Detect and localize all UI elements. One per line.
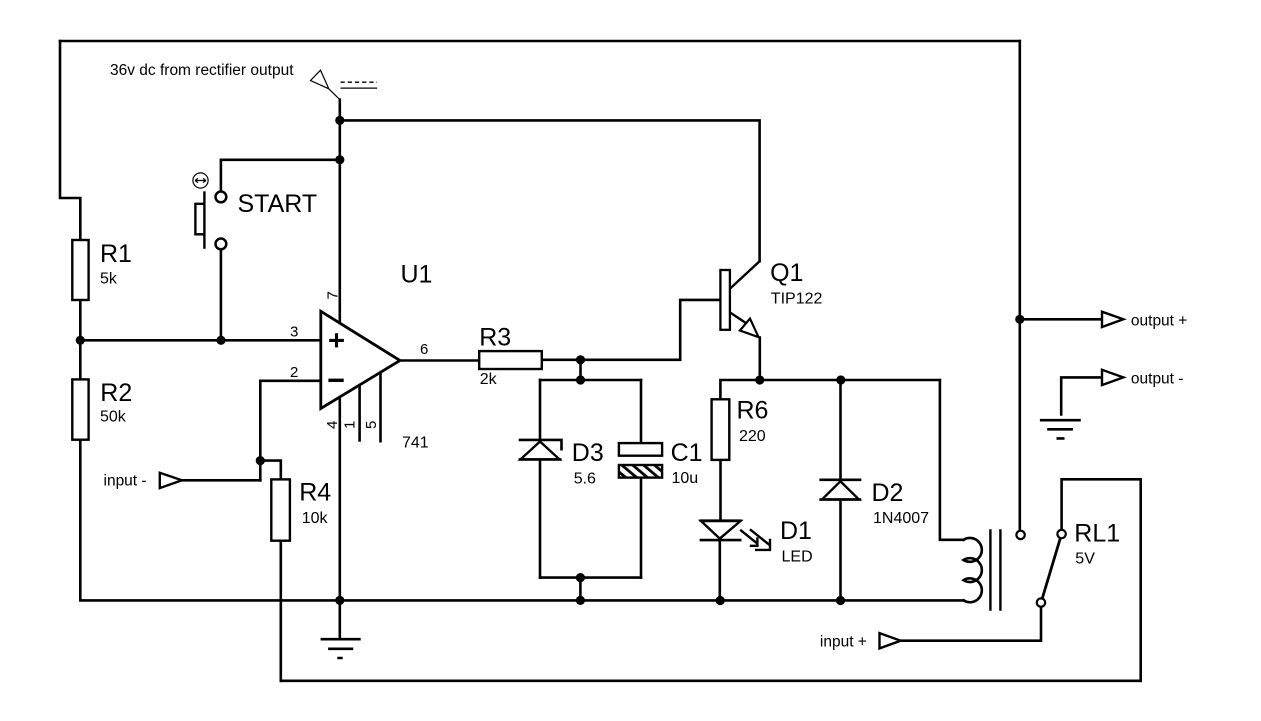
relay contact bottom circle — [1037, 598, 1045, 606]
resistor R2 — [72, 379, 88, 439]
wire power stub / pin7 — [338, 100, 341, 324]
svg-text:Q1: Q1 — [770, 259, 803, 287]
resistor R4 — [271, 479, 290, 540]
svg-text:5k: 5k — [100, 270, 118, 287]
svg-text:7: 7 — [324, 291, 341, 299]
capacitor C1 bottom plate — [619, 465, 662, 478]
svg-text:4: 4 — [324, 421, 341, 429]
relay contact common circle — [1016, 531, 1024, 539]
transistor Q1 emitter arrowhead — [740, 319, 759, 338]
svg-text:output -: output - — [1131, 371, 1184, 388]
power flag stem — [329, 89, 340, 100]
svg-text:D1: D1 — [780, 517, 812, 545]
zener diode D3 cathode bar — [519, 440, 562, 451]
terminal arrow output- — [1102, 370, 1123, 385]
wire right rail — [1018, 41, 1021, 530]
diode D2 anode bar — [819, 498, 861, 501]
wire D2 top lead — [839, 380, 842, 480]
relay switch blade — [1041, 534, 1062, 603]
led D1 anode tick — [700, 519, 742, 522]
wire START bottom — [220, 250, 223, 340]
svg-text:1: 1 — [341, 421, 358, 429]
op-amp plus sign — [329, 333, 344, 347]
wire emitter rail — [720, 380, 940, 399]
wire Q1 emitter lead — [758, 338, 761, 381]
wire D1 bottom lead — [718, 540, 721, 600]
wire top-mid rail to Q1 collector — [340, 120, 760, 261]
svg-text:D2: D2 — [872, 479, 904, 507]
power flag triangle — [311, 70, 329, 89]
ground left — [321, 639, 361, 658]
svg-text:5: 5 — [363, 421, 380, 429]
svg-text:D3: D3 — [572, 439, 604, 467]
push button bottom contact circle — [216, 239, 227, 250]
svg-text:C1: C1 — [671, 439, 703, 467]
wire C1 top lead — [640, 380, 643, 443]
svg-text:RL1: RL1 — [1074, 520, 1120, 548]
wire D2 bottom lead — [839, 500, 842, 601]
svg-text:R2: R2 — [100, 379, 132, 407]
svg-text:10k: 10k — [302, 510, 329, 527]
capacitor C1 top plate — [619, 443, 662, 456]
wire C1 bottom lead — [640, 478, 643, 578]
svg-text:R6: R6 — [737, 396, 769, 424]
svg-text:50k: 50k — [100, 409, 127, 426]
zener diode D3 triangle — [521, 442, 560, 460]
wire jog to R4 top — [260, 461, 281, 480]
push button plunger — [203, 191, 205, 249]
wire input- lead — [182, 479, 260, 482]
svg-text:START: START — [238, 190, 318, 218]
ground right — [1040, 420, 1081, 438]
svg-text:741: 741 — [402, 435, 429, 452]
wire R4 bottom lead — [279, 541, 282, 681]
wire pin2 — [260, 381, 321, 481]
wire node A rail pin3 — [80, 339, 320, 342]
wire output- lead — [1061, 377, 1102, 414]
wire coil feed — [940, 380, 964, 540]
wire R2 bottom lead + bottom rail — [80, 440, 963, 601]
transistor Q1 base bar — [720, 270, 730, 330]
svg-text:TIP122: TIP122 — [771, 291, 823, 308]
terminal arrow input+ — [880, 633, 901, 648]
wire R1 bottom lead — [79, 300, 82, 340]
push button arrow glyph — [195, 178, 206, 182]
wire D3 top lead — [539, 380, 542, 440]
svg-text:5.6: 5.6 — [574, 470, 596, 487]
svg-text:input +: input + — [820, 633, 867, 650]
wire pin6 output — [400, 359, 479, 362]
wire pin5 stub — [379, 374, 382, 441]
wire input+ lead — [901, 608, 1042, 640]
relay contact top circle — [1057, 530, 1065, 538]
svg-text:LED: LED — [782, 548, 813, 565]
svg-text:36v dc from rectifier output: 36v dc from rectifier output — [110, 62, 294, 79]
svg-text:6: 6 — [420, 341, 428, 358]
wire pin1 stub — [358, 386, 361, 441]
svg-text:1N4007: 1N4007 — [873, 510, 929, 527]
wire bottommost rail — [281, 679, 1141, 682]
svg-text:output +: output + — [1131, 313, 1187, 330]
wire R6 bottom lead — [719, 460, 722, 520]
power flag dc dashed line — [341, 81, 378, 83]
wire box top rail — [540, 379, 641, 382]
svg-text:5V: 5V — [1075, 550, 1095, 567]
wire box bottom stub — [579, 578, 582, 601]
svg-text:2: 2 — [290, 364, 298, 381]
wire box top stub — [579, 360, 582, 380]
wire switch top loop — [1062, 479, 1141, 681]
svg-text:2k: 2k — [480, 371, 498, 388]
relay coil — [964, 538, 982, 602]
svg-text:R1: R1 — [100, 240, 132, 268]
wire R2 top lead — [79, 340, 82, 379]
push button arrow circle — [193, 173, 208, 188]
diode D2 cathode bar — [819, 478, 861, 481]
svg-text:U1: U1 — [401, 261, 433, 289]
wire left rail into R1 top — [60, 41, 80, 240]
wire START top — [221, 160, 340, 191]
resistor R6 — [712, 399, 730, 460]
svg-text:input -: input - — [104, 473, 147, 490]
transistor Q1 emitter line — [730, 312, 747, 323]
svg-text:3: 3 — [290, 323, 298, 340]
zener diode D3 anode bar — [519, 458, 562, 461]
svg-text:R4: R4 — [299, 479, 331, 507]
terminal arrow input- — [160, 473, 182, 488]
led D1 arrow 1 — [740, 530, 758, 547]
op-amp minus sign — [328, 379, 343, 382]
wire top rail — [60, 40, 1020, 43]
push button top contact circle — [216, 192, 227, 203]
wire box bottom rail — [540, 576, 641, 579]
svg-text:10u: 10u — [672, 470, 699, 487]
power flag dc solid line — [341, 87, 378, 89]
diode D2 triangle — [822, 481, 859, 499]
resistor R3 — [479, 351, 542, 369]
terminal arrow output+ — [1102, 312, 1123, 327]
wire R3 to Q1 base — [542, 300, 721, 360]
led D1 arrow 2 — [750, 529, 771, 550]
transistor Q1 collector line — [730, 261, 760, 289]
op-amp U1 triangle — [321, 311, 400, 408]
wire pin4 — [338, 397, 341, 639]
led D1 cathode bar — [700, 539, 742, 542]
wire output+ lead — [1020, 318, 1102, 321]
wire D3 bottom lead — [539, 460, 542, 578]
resistor R1 — [72, 240, 88, 300]
relay core lines — [990, 529, 1000, 611]
svg-text:R3: R3 — [479, 324, 511, 352]
svg-text:220: 220 — [739, 428, 766, 445]
push button bracket — [195, 204, 204, 235]
led D1 triangle — [701, 521, 741, 539]
